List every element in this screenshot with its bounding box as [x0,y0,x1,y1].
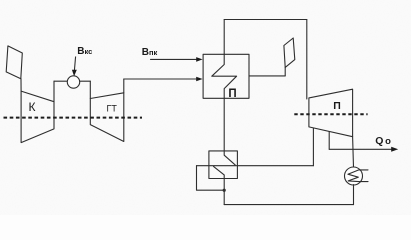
svg-text:П: П [228,88,236,100]
arrowhead Vpk [196,57,202,62]
boiler zigzag heating surface [212,54,237,98]
shaft dashed line left [4,117,143,119]
stack parallelogram [284,38,295,67]
wire compressor outlet riser [53,81,55,102]
economizer box [209,151,238,179]
arrowhead Qo [391,147,398,152]
combustion chamber circle [67,76,79,88]
heater coil zigzag [348,170,368,182]
wire condensate drop from heater [353,185,355,205]
wire combustor top right [80,80,91,82]
arrow Vks fuel into combustor [72,57,77,77]
wire feedwater riser to turbine [312,128,314,166]
wire heat output drop [328,132,330,150]
svg-text:Вкс: Вкс [77,46,92,57]
arrowhead GT exhaust [196,77,202,82]
economizer zigzag lower [214,166,225,178]
network heater circle [345,167,363,185]
wire economizer gas outlet down [223,179,225,205]
wire combustor top left [54,80,67,82]
svg-text:К: К [29,100,36,114]
junction dot [223,189,226,192]
wire stack riser [284,67,286,76]
wire intake to compressor [20,79,22,91]
svg-text:П: П [333,100,341,112]
wire turbine exhaust to heater [352,137,355,168]
wire feedwater bus through economizer [197,165,314,167]
gas turbine GT [90,93,124,142]
svg-text:Впк: Впк [142,47,158,58]
wire GT exhaust riser [123,79,125,93]
economizer zigzag [224,151,235,165]
wire Vpk fuel line [151,58,200,60]
wire recirculation loop left [197,166,225,191]
wire gas duct boiler to economizer [223,98,225,151]
air intake parallelogram [6,46,22,79]
wire GT exhaust to boiler [124,78,200,80]
steam turbine P [309,89,353,137]
wire Qo arrow line [329,148,393,150]
wire flue gas stub to stack [249,75,285,77]
wire steam riser from boiler top [223,20,225,55]
wire steam line top [224,19,307,21]
wire condensate return bottom [224,204,353,206]
svg-text:ГТ: ГТ [107,103,118,113]
compressor K [21,91,54,143]
svg-text:Qо: Qо [375,135,391,147]
wire turbine inlet riser [89,81,91,98]
shaft dashed line right [294,113,367,115]
wire steam downcomer to turbine [306,20,308,100]
boiler box P [203,54,249,98]
